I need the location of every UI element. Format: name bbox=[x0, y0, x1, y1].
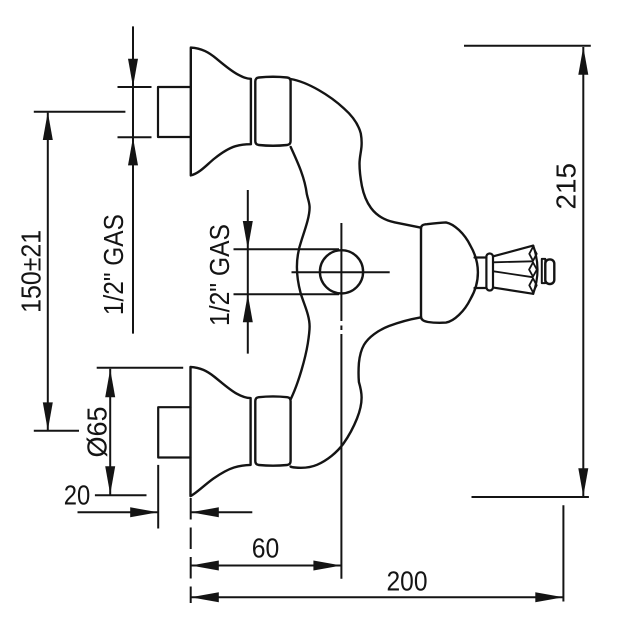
crystal handle cone bbox=[493, 246, 533, 294]
dome flat face bbox=[420, 228, 422, 317]
lower wall nipple bbox=[158, 407, 190, 457]
crystal diamond facets bbox=[529, 247, 537, 292]
ext line circle bottom bbox=[234, 293, 340, 295]
svg-text:215: 215 bbox=[551, 163, 582, 210]
arrow 200 right bbox=[535, 592, 563, 602]
crystal facet lines bbox=[494, 261, 533, 277]
ext line bell bottom bbox=[95, 494, 147, 496]
arrow 215 top up bbox=[578, 47, 588, 75]
dim line 60 bbox=[191, 565, 342, 567]
dim line 20 right part bbox=[191, 511, 253, 513]
lower escutcheon bell bbox=[191, 367, 251, 496]
arrow 1/2GAS top up bbox=[128, 137, 138, 165]
arrow 20 left bbox=[191, 507, 219, 517]
body outline left bbox=[291, 147, 310, 399]
lower union nut bbox=[255, 396, 290, 465]
valve dome cap bbox=[421, 222, 478, 322]
handle end knob bbox=[545, 259, 554, 284]
ext line 215 bottom bbox=[472, 496, 589, 498]
arrow 1/2GAS center down bbox=[243, 221, 253, 249]
arrow 150 bottom down bbox=[43, 402, 53, 430]
ext line bell top bbox=[97, 367, 184, 369]
upper wall nipple bbox=[158, 87, 191, 137]
tick top nipple top bbox=[118, 86, 152, 88]
ext line top nipple center bbox=[34, 111, 126, 113]
ext line bottom nipple center bbox=[34, 430, 79, 432]
body outline lower-right bbox=[291, 317, 421, 467]
cartridge circle bbox=[320, 250, 363, 293]
arrow 215 bottom down bbox=[578, 468, 588, 496]
ext line bell face dashed bbox=[190, 498, 192, 603]
arrow 60 right bbox=[313, 561, 341, 571]
svg-text:60: 60 bbox=[252, 533, 280, 564]
crystal tip arc bbox=[533, 246, 537, 294]
arrow Ø65 down bbox=[105, 466, 115, 494]
arrow 1/2GAS top down bbox=[128, 59, 138, 87]
arrow 150 top up bbox=[43, 112, 53, 140]
dim line 1/2GAS center bbox=[247, 190, 249, 354]
ext line circle top bbox=[234, 248, 340, 250]
dimension graphics bbox=[34, 26, 591, 603]
handle collar flange bbox=[486, 254, 493, 291]
handle end neck bbox=[542, 259, 546, 283]
ext line 200 right bbox=[562, 505, 564, 601]
svg-text:1/2" GAS: 1/2" GAS bbox=[98, 214, 129, 315]
svg-text:20: 20 bbox=[64, 480, 91, 511]
dim line 215 bbox=[582, 47, 584, 496]
tick top nipple bottom bbox=[118, 136, 152, 138]
dim line 20 left part bbox=[78, 511, 159, 513]
arrow 20 right bbox=[130, 507, 158, 517]
upper escutcheon bell bbox=[191, 48, 251, 176]
horizontal centerline bbox=[292, 271, 390, 273]
svg-text:200: 200 bbox=[387, 566, 428, 597]
arrow 60 left bbox=[191, 561, 219, 571]
centerlines bbox=[292, 223, 390, 579]
svg-text:Ø65: Ø65 bbox=[82, 407, 113, 458]
ext line 215 top bbox=[464, 45, 591, 47]
vertical centerline bbox=[340, 223, 342, 579]
svg-text:1/2" GAS: 1/2" GAS bbox=[204, 224, 235, 326]
handle stem bbox=[475, 258, 487, 289]
dim line Ø65 bbox=[109, 369, 111, 495]
dim line 1/2GAS top bbox=[132, 26, 134, 333]
ext line wall face bbox=[157, 465, 159, 529]
upper union nut bbox=[255, 77, 290, 146]
arrow 1/2GAS center up bbox=[243, 294, 253, 322]
dim line 200 bbox=[191, 596, 564, 598]
dim line 150±21 bbox=[47, 113, 49, 430]
arrowheads bbox=[43, 47, 589, 603]
svg-text:150±21: 150±21 bbox=[16, 230, 47, 313]
body outline upper-right bbox=[291, 79, 421, 228]
arrow 200 left bbox=[191, 592, 219, 602]
arrow Ø65 up bbox=[105, 369, 115, 397]
